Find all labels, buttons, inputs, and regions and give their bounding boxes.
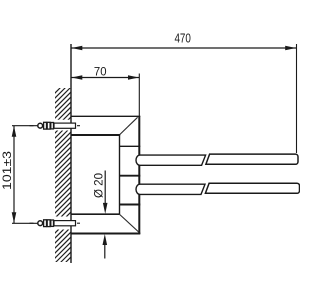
plate: bottom inner edge	[71, 213, 120, 215]
screw 2 centerline left dash	[30, 222, 34, 224]
screw 2 thread block 3	[51, 220, 54, 226]
dim Ø20: upper arrowhead (down)	[103, 203, 108, 214]
wall hatching	[53, 76, 72, 280]
arm 2 right segment	[205, 183, 299, 193]
screw 1 centerline right dash	[77, 125, 80, 127]
screw 2 thread block 1	[44, 220, 47, 227]
dim 470: right extension line	[296, 44, 298, 153]
plate: back column edge	[119, 134, 121, 214]
svg-text:470: 470	[174, 31, 191, 46]
svg-text:70: 70	[94, 66, 107, 78]
screw 2 head	[38, 221, 43, 226]
dim 101±3: dimension line	[13, 126, 15, 224]
screw 1 thread block 3	[51, 123, 54, 129]
dim 101±3: bottom arrowhead	[12, 212, 17, 223]
svg-text:Ø 20: Ø 20	[92, 173, 106, 198]
hub divider 3	[120, 204, 141, 206]
dim 470: right arrowhead	[285, 46, 296, 51]
plate: top oblique edge	[120, 117, 138, 134]
dim Ø20: lower leader line	[104, 242, 106, 259]
dim 470: dimension line	[71, 47, 297, 49]
plate: bottom outer edge	[71, 232, 140, 234]
plate: front face edge	[138, 116, 140, 234]
arm 2 left segment (tube with pivot cap arc and break cut)	[136, 184, 205, 194]
plate: top outer edge	[71, 115, 140, 117]
screw 1 thread block 1	[44, 122, 47, 129]
screw 2 thread block 2	[47, 220, 50, 227]
hub divider 2	[120, 175, 141, 177]
dim 101±3: top arrowhead	[12, 126, 17, 137]
screw 2 shank	[54, 221, 76, 226]
svg-text:101±3: 101±3	[0, 151, 14, 190]
screw 1 shank	[54, 123, 76, 128]
dim 70: left arrowhead	[72, 75, 83, 80]
dim 470: left arrowhead	[72, 46, 83, 51]
dim 101±3: bottom extension line	[12, 222, 44, 224]
dim 70: right extension line	[138, 74, 140, 117]
dim 70: right arrowhead	[128, 75, 139, 80]
arm 1 right segment	[206, 154, 298, 164]
plate: bottom oblique edge	[120, 215, 139, 233]
screw 1 head	[38, 123, 43, 128]
plate: top inner edge	[71, 134, 120, 136]
dim 70: dimension line	[71, 77, 139, 79]
screw 1 thread block 2	[47, 122, 50, 129]
screw 2 centerline right dash	[77, 222, 80, 224]
wall face line (also left extension line for dims 470/70)	[70, 44, 72, 263]
dim Ø20: lower arrowhead (up)	[103, 234, 108, 245]
screw 1 centerline left dash	[30, 125, 34, 127]
hub divider 1	[120, 145, 141, 147]
dim 101±3: top extension line	[12, 125, 44, 127]
arm 1 left segment (tube with pivot cap arc and break cut)	[136, 155, 206, 165]
dim Ø20: upper leader line	[104, 171, 106, 207]
